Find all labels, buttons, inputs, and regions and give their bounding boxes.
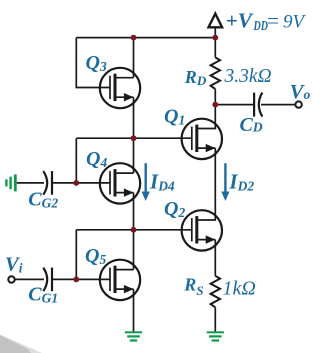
- wire Vi to CG1: [15, 278, 44, 280]
- wire Q4 gate loop: [76, 138, 110, 183]
- wire CG2 to Q4 gate node: [52, 182, 76, 184]
- wire input CG2 row: [17, 182, 44, 184]
- wire RD node to Q1 drain: [197, 105, 216, 129]
- capacitor CG1: [43, 268, 52, 292]
- resistor RS: [211, 276, 220, 308]
- svg-text:=: =: [267, 8, 279, 32]
- current arrow ID4: [142, 163, 150, 201]
- power VDD symbol: [209, 14, 223, 28]
- transistor Q5: [100, 260, 140, 300]
- gray page corner: [0, 335, 42, 353]
- resistor RD: [211, 57, 220, 89]
- wire Q5 source to ground: [133, 289, 135, 332]
- node dot CG1 junction: [73, 277, 79, 283]
- current arrow ID2: [221, 163, 229, 201]
- wire top rail: [76, 37, 215, 39]
- wire Q2 source to RS: [214, 240, 216, 276]
- wire L3 gate row: [76, 137, 192, 139]
- node dot RD bottom: [212, 102, 218, 108]
- node Vi terminal: [8, 276, 14, 282]
- wire Q3 drain up to rail: [133, 38, 135, 78]
- wire Q4 source down: [133, 193, 135, 230]
- wire VDD stem: [214, 27, 216, 37]
- node dot L3 junction: [131, 135, 137, 141]
- svg-text:9V: 9V: [283, 11, 307, 32]
- wire L4 gate row: [76, 229, 192, 231]
- svg-text:DD: DD: [253, 18, 268, 33]
- wire RS to ground: [214, 307, 216, 332]
- node dot CG2 junction: [73, 180, 79, 186]
- wire Q4 drain up: [133, 138, 135, 173]
- wire VDD rail down to RD: [214, 38, 216, 58]
- wire CG1 to Q5 gate node: [52, 278, 76, 280]
- transistor Q3: [100, 68, 140, 108]
- wire Q3 source down to node: [133, 97, 135, 138]
- wire Q5 gate loop: [76, 230, 110, 280]
- node Vo terminal: [295, 101, 301, 107]
- wire CD to Vo: [261, 104, 295, 106]
- capacitor CG2: [43, 171, 52, 195]
- node dot L4 junction: [131, 227, 137, 233]
- ground AC input symbol at CG2: [5, 174, 16, 191]
- svg-text:+V: +V: [226, 8, 254, 32]
- wire Q5 drain up: [133, 230, 135, 270]
- wire RD to drain node: [214, 89, 216, 105]
- node dot Q3 drain on rail: [131, 35, 137, 41]
- wire Q3 gate loop: [76, 38, 110, 88]
- ground below Q5: [125, 331, 142, 341]
- wire drain node to CD: [215, 104, 254, 106]
- wire Q1 source to Q2 drain: [197, 148, 216, 220]
- transistor Q2: [182, 210, 222, 250]
- node dot rail-VDD: [212, 35, 218, 41]
- ground below RS: [207, 331, 224, 341]
- svg-text:1kΩ: 1kΩ: [223, 278, 256, 300]
- transistor Q4: [100, 163, 140, 203]
- svg-text:3.3kΩ: 3.3kΩ: [224, 66, 272, 87]
- capacitor CD: [254, 93, 262, 117]
- transistor Q1: [182, 119, 222, 159]
